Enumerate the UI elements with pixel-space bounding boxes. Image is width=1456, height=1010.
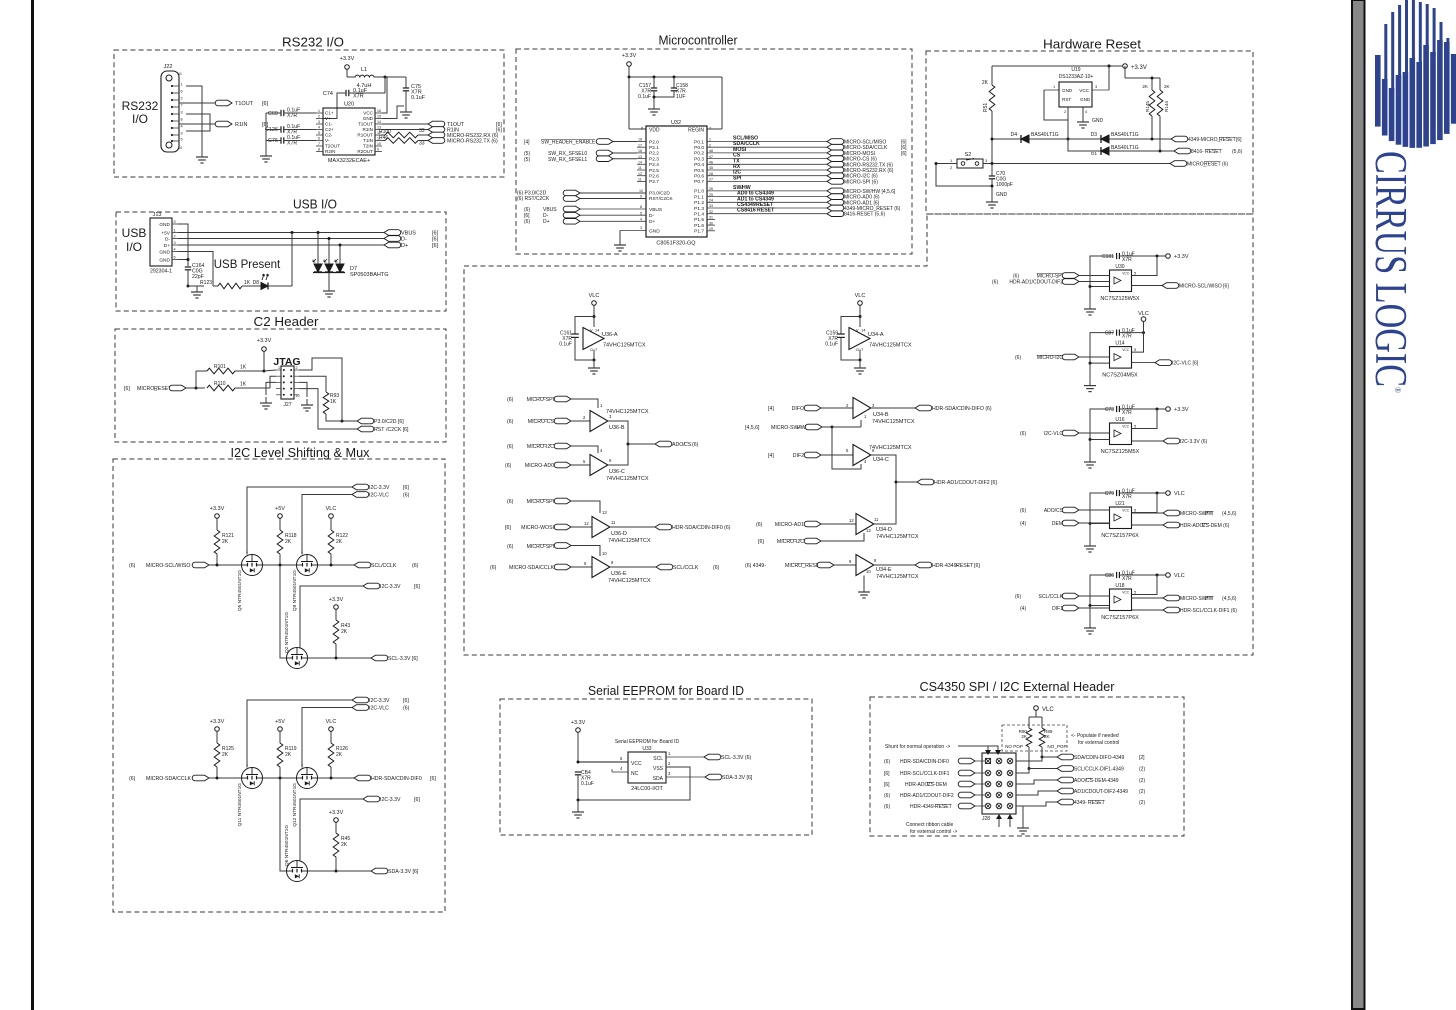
svg-text:C86: C86 bbox=[1105, 573, 1114, 579]
svg-text:P2.5: P2.5 bbox=[649, 168, 659, 174]
wire cap left rail U21 bbox=[1090, 493, 1114, 524]
tag I2C-3.3V top bbox=[352, 697, 369, 703]
svg-text:Hardware Reset: Hardware Reset bbox=[1043, 37, 1141, 52]
svg-text:GND: GND bbox=[159, 249, 170, 255]
svg-text:T1IN: T1IN bbox=[363, 138, 373, 143]
tag out I2C-VLC [6] bbox=[1132, 362, 1156, 364]
tag output HDR-SDA/CDIN-DIF0 bbox=[354, 775, 371, 781]
ground U30 bbox=[1089, 287, 1091, 304]
Cirrus Logic sphere logo bbox=[1375, 55, 1381, 127]
svg-text:1K: 1K bbox=[330, 399, 337, 405]
wire U36-D out bbox=[610, 526, 655, 528]
svg-text:1: 1 bbox=[709, 138, 711, 142]
svg-text:[6]: [6] bbox=[432, 243, 439, 249]
VSS wire bbox=[578, 767, 690, 800]
svg-text:USB Present: USB Present bbox=[214, 259, 281, 271]
svg-text:C69: C69 bbox=[268, 111, 278, 117]
power +3.3V RS232 bbox=[345, 65, 350, 70]
svg-text:Serial EEPROM for Board ID: Serial EEPROM for Board ID bbox=[615, 739, 680, 745]
svg-text:Q5 NTR4501NT1G: Q5 NTR4501NT1G bbox=[237, 570, 243, 611]
svg-text:0.1uF: 0.1uF bbox=[581, 781, 594, 787]
svg-text:U20: U20 bbox=[344, 102, 354, 108]
wire I2C to U34-D enable bbox=[821, 533, 864, 541]
svg-text:ADO/CS: ADO/CS bbox=[1044, 508, 1064, 514]
svg-text:MICRO-I2C: MICRO-I2C bbox=[527, 444, 554, 450]
svg-text:+5V: +5V bbox=[275, 506, 285, 512]
tag T1OUT bbox=[215, 100, 232, 106]
header pin bbox=[1007, 770, 1013, 776]
U19 RST pin down bbox=[1067, 107, 1069, 139]
svg-text:C2-: C2- bbox=[325, 133, 333, 138]
svg-text:VDD: VDD bbox=[649, 128, 660, 134]
svg-text:25: 25 bbox=[709, 193, 713, 197]
svg-text:P0.7: P0.7 bbox=[694, 179, 704, 185]
svg-text:(6): (6) bbox=[713, 565, 720, 571]
svg-text:+3.3V: +3.3V bbox=[210, 719, 225, 725]
svg-text:HDR-SCL/CCLK-DIF1: HDR-SCL/CCLK-DIF1 bbox=[900, 771, 950, 777]
diode D1 bbox=[1068, 139, 1101, 151]
SCL wire bbox=[666, 756, 704, 758]
capacitor C161 bbox=[575, 317, 594, 335]
svg-text:I/O: I/O bbox=[126, 240, 142, 254]
svg-text:J28: J28 bbox=[982, 816, 990, 822]
svg-text:(6): (6) bbox=[507, 397, 514, 403]
svg-text:SDA/CDIN-DIFO-4349: SDA/CDIN-DIFO-4349 bbox=[1074, 755, 1125, 761]
svg-text:P2.2: P2.2 bbox=[649, 151, 659, 157]
svg-text:P1.2: P1.2 bbox=[694, 200, 704, 206]
ground decoupling caps bbox=[265, 113, 267, 150]
ground eeprom bbox=[577, 800, 579, 806]
svg-text:[6]: [6] bbox=[403, 698, 409, 704]
NC pin bbox=[612, 771, 628, 773]
wire fet3 out bbox=[308, 870, 372, 872]
tag R1IN bbox=[215, 121, 232, 127]
svg-text:I2C-3.3V: I2C-3.3V bbox=[380, 797, 401, 803]
transistor Q11 bbox=[242, 768, 263, 789]
ground TVS bbox=[328, 285, 330, 291]
section box USB I/O bbox=[116, 212, 446, 311]
wire SPI to U36-B enable bbox=[571, 399, 598, 408]
svg-text:[6]: [6] bbox=[414, 584, 420, 590]
svg-text:33: 33 bbox=[419, 128, 425, 134]
buffer U36-A bbox=[583, 328, 604, 350]
svg-text:+5V: +5V bbox=[275, 719, 285, 725]
svg-text:MICRO-SW/: MICRO-SW/ bbox=[771, 425, 800, 431]
svg-text:24: 24 bbox=[709, 199, 713, 203]
svg-text:J27: J27 bbox=[283, 402, 291, 408]
header pin bbox=[996, 770, 1002, 776]
svg-text:7: 7 bbox=[181, 104, 183, 108]
svg-text:SW_READER_ENABLE: SW_READER_ENABLE bbox=[541, 140, 596, 146]
wire J22 pin8 to R1IN tag bbox=[179, 123, 218, 125]
resistor R90 bbox=[1026, 728, 1032, 747]
capacitor C76 bbox=[280, 137, 282, 143]
power +3.3V U30 bbox=[1119, 255, 1165, 257]
svg-text:SCL-3.3V [6]: SCL-3.3V [6] bbox=[388, 656, 418, 662]
svg-text:74VHC125MTCX: 74VHC125MTCX bbox=[869, 343, 912, 349]
buffer U34-B bbox=[853, 398, 871, 419]
svg-text:D+: D+ bbox=[649, 219, 655, 225]
svg-text:C2+: C2+ bbox=[325, 127, 334, 132]
resistor R144 bbox=[1159, 78, 1161, 90]
svg-text:I2C Level Shifting & Mux: I2C Level Shifting & Mux bbox=[231, 445, 370, 460]
svg-text:[6]: [6] bbox=[884, 771, 890, 777]
svg-text:NO_POP: NO_POP bbox=[1047, 744, 1066, 749]
tag out y bbox=[1132, 524, 1164, 526]
svg-text:47: 47 bbox=[709, 155, 713, 159]
svg-text:P2.7: P2.7 bbox=[649, 179, 659, 185]
svg-text:11: 11 bbox=[874, 517, 879, 522]
svg-text:MICRO-SPI: MICRO-SPI bbox=[527, 544, 554, 550]
capacitor C87 bbox=[1116, 330, 1118, 336]
buffer U36-B bbox=[590, 411, 608, 432]
svg-text:8416-: 8416- bbox=[1191, 149, 1204, 155]
svg-text:74VHC125MTCX: 74VHC125MTCX bbox=[876, 574, 919, 580]
svg-text:[6]: [6] bbox=[414, 797, 420, 803]
svg-text:NC: NC bbox=[631, 771, 639, 777]
svg-text:15: 15 bbox=[377, 115, 381, 119]
header pin bbox=[1007, 758, 1013, 764]
svg-text:[6]: [6] bbox=[262, 101, 269, 107]
resistor R45 bbox=[333, 833, 339, 857]
svg-text:9: 9 bbox=[640, 194, 642, 198]
wire hdr right AD1/CDOUT-DIF2-4349 bbox=[1016, 791, 1057, 795]
buffer U36-E bbox=[592, 557, 610, 578]
svg-text:10: 10 bbox=[296, 394, 300, 398]
svg-text:I2C-3.3V: I2C-3.3V bbox=[380, 584, 401, 590]
wire channel line bbox=[209, 564, 354, 566]
buffer U34-D bbox=[856, 514, 874, 535]
wire hdr left bbox=[975, 760, 985, 762]
svg-text:2K: 2K bbox=[341, 842, 348, 848]
svg-text:19: 19 bbox=[709, 227, 713, 231]
power VLC U34 bbox=[858, 301, 863, 306]
resistor R43 bbox=[333, 620, 339, 644]
wire D+ line bbox=[178, 244, 384, 246]
svg-text:12: 12 bbox=[638, 172, 642, 176]
svg-text:3: 3 bbox=[181, 111, 183, 115]
svg-text:+3.3V: +3.3V bbox=[257, 338, 272, 344]
svg-text:D8: D8 bbox=[253, 280, 260, 286]
svg-text:I2C-3.3V: I2C-3.3V bbox=[369, 698, 390, 704]
svg-text:VLC: VLC bbox=[1174, 491, 1185, 497]
tag HDR-AD1/CDOUT-DIF2 out bbox=[917, 479, 934, 485]
svg-text:27: 27 bbox=[709, 178, 713, 182]
svg-text:R51: R51 bbox=[983, 103, 989, 112]
svg-text:+3.3V: +3.3V bbox=[340, 56, 355, 62]
svg-text:1K: 1K bbox=[240, 365, 247, 371]
svg-text:(6): (6) bbox=[1020, 431, 1026, 437]
wire shunt arrows bbox=[958, 746, 988, 750]
svg-text:V: V bbox=[590, 328, 593, 333]
power +3.3V lower bbox=[334, 605, 339, 610]
tag R1IN out bbox=[428, 127, 445, 133]
svg-text:(4): (4) bbox=[1020, 521, 1026, 527]
svg-text:[6]: [6] bbox=[758, 539, 764, 545]
svg-text:SCL/CCLK: SCL/CCLK bbox=[673, 565, 699, 571]
svg-text:HDR-AD1/CDOUT-DIF2: HDR-AD1/CDOUT-DIF2 bbox=[1009, 280, 1063, 286]
svg-text:10: 10 bbox=[377, 142, 381, 146]
svg-text:D3: D3 bbox=[1091, 132, 1098, 138]
capacitor C126 bbox=[280, 126, 282, 132]
resistor R119 bbox=[277, 743, 283, 767]
svg-text:HDR-SDA/CDIN-DIFO (6): HDR-SDA/CDIN-DIFO (6) bbox=[932, 406, 992, 412]
svg-text:RESET: RESET bbox=[1204, 162, 1221, 168]
svg-text:1: 1 bbox=[174, 229, 176, 233]
svg-text:U34-D: U34-D bbox=[876, 527, 892, 533]
ground header bbox=[1022, 806, 1024, 822]
tag I2C-3.3V top bbox=[352, 484, 369, 490]
svg-text:11: 11 bbox=[178, 72, 182, 76]
wire hdr left bbox=[975, 783, 985, 785]
tag D- bbox=[384, 236, 401, 242]
svg-text:10: 10 bbox=[639, 189, 643, 193]
bracket wires J22 bbox=[186, 86, 202, 145]
svg-text:+3.3V: +3.3V bbox=[1131, 65, 1147, 71]
svg-text:7: 7 bbox=[318, 142, 320, 146]
svg-text:VCC: VCC bbox=[1122, 509, 1129, 513]
svg-text:NO POP: NO POP bbox=[1005, 744, 1023, 749]
svg-text:VCC: VCC bbox=[631, 761, 642, 767]
svg-text:P2.0: P2.0 bbox=[649, 139, 659, 145]
svg-text:6: 6 bbox=[174, 256, 176, 260]
wire VCC to node bbox=[382, 77, 387, 113]
svg-text:P0.0: P0.0 bbox=[694, 145, 704, 151]
svg-text:MICRO-AD0: MICRO-AD0 bbox=[525, 463, 554, 469]
svg-text:(6): (6) bbox=[507, 444, 514, 450]
svg-text:[6]: [6] bbox=[974, 563, 980, 569]
power +3.3V eeprom bbox=[576, 728, 581, 733]
svg-text:8: 8 bbox=[318, 148, 320, 152]
SDA wire bbox=[666, 776, 705, 778]
svg-text:U34-E: U34-E bbox=[876, 567, 892, 573]
power +3.3V lower bbox=[334, 818, 339, 823]
svg-text:I2C-VLC: I2C-VLC bbox=[369, 493, 389, 499]
wire SPI to U36-E enable bbox=[571, 546, 600, 557]
svg-text:MICRO-SPI: MICRO-SPI bbox=[527, 499, 554, 505]
resistor R51 bbox=[989, 85, 995, 111]
svg-text:C87: C87 bbox=[1105, 331, 1114, 337]
wire U34-E out bbox=[874, 564, 915, 566]
svg-text:U36-A: U36-A bbox=[602, 332, 618, 338]
svg-text:R1IN: R1IN bbox=[235, 122, 248, 128]
svg-text:24LC00-I/OT: 24LC00-I/OT bbox=[631, 786, 663, 792]
svg-text:(6): (6) bbox=[507, 419, 514, 425]
tag MICRO_RESET out bbox=[1170, 161, 1187, 167]
ground U34-E bbox=[863, 576, 865, 587]
svg-text:C2 Header: C2 Header bbox=[254, 314, 320, 329]
svg-text:(5): (5) bbox=[524, 157, 530, 163]
svg-text:MICRO-SCL/WISO [6]: MICRO-SCL/WISO [6] bbox=[1179, 284, 1229, 290]
svg-text:P1.1: P1.1 bbox=[694, 194, 704, 200]
TVS diode array D7 bbox=[314, 264, 322, 272]
wires J27 right side bbox=[299, 358, 342, 370]
wire hdr left bbox=[975, 772, 985, 774]
svg-text:I/O: I/O bbox=[132, 112, 148, 126]
svg-text:MICRO-RS232.TX (6): MICRO-RS232.TX (6) bbox=[447, 139, 498, 145]
svg-text:30: 30 bbox=[709, 221, 713, 225]
svg-text:R110: R110 bbox=[214, 381, 226, 387]
header pin bbox=[985, 770, 991, 776]
svg-text:2: 2 bbox=[181, 97, 183, 101]
svg-text:[6]: [6] bbox=[403, 485, 409, 491]
tag 4349-RESET bbox=[1057, 799, 1074, 805]
svg-text:G: G bbox=[856, 347, 859, 352]
tag output low SCL-3.3V [6] bbox=[371, 655, 388, 661]
svg-text:V: V bbox=[856, 328, 859, 333]
svg-text:(2): (2) bbox=[1139, 767, 1145, 773]
svg-text:GND: GND bbox=[159, 222, 170, 228]
svg-text:(5,6): (5,6) bbox=[1232, 149, 1243, 155]
svg-text:[4]: [4] bbox=[524, 140, 530, 146]
svg-text:Q6 NTR4501NT1G: Q6 NTR4501NT1G bbox=[284, 825, 290, 866]
svg-text:4: 4 bbox=[318, 126, 320, 130]
svg-text:D+: D+ bbox=[401, 243, 408, 249]
svg-text:for external control: for external control bbox=[1078, 740, 1119, 746]
transistor Q2 bbox=[287, 648, 308, 669]
svg-text:RST: RST bbox=[374, 427, 385, 433]
svg-text:10: 10 bbox=[602, 551, 607, 556]
svg-text:DEM: DEM bbox=[1052, 521, 1063, 527]
svg-text:NC7SZ125W5X: NC7SZ125W5X bbox=[1100, 296, 1139, 302]
wire hdr left bbox=[975, 794, 985, 796]
svg-text:R1OUT: R1OUT bbox=[357, 133, 373, 138]
svg-text:+3.3V: +3.3V bbox=[622, 53, 637, 59]
svg-text:Q2 NTR4501NT1G: Q2 NTR4501NT1G bbox=[284, 612, 290, 653]
svg-text:VSS: VSS bbox=[653, 766, 664, 772]
wire hdr left bbox=[975, 805, 985, 807]
svg-text:MICRO-SPI: MICRO-SPI bbox=[527, 397, 554, 403]
svg-text:U18: U18 bbox=[1115, 583, 1124, 589]
svg-text:2K: 2K bbox=[1044, 734, 1051, 739]
svg-text:+3.3V: +3.3V bbox=[329, 810, 344, 816]
svg-text:RESET: RESET bbox=[956, 563, 974, 569]
svg-text:(6): (6) bbox=[524, 219, 530, 225]
resistor R93 bbox=[323, 392, 329, 414]
svg-text:®: ® bbox=[1393, 387, 1402, 393]
svg-text:0.1uF: 0.1uF bbox=[825, 342, 838, 348]
wire LED to VBUS bbox=[291, 233, 293, 287]
svg-text:SDA-3.3V [6]: SDA-3.3V [6] bbox=[388, 869, 419, 875]
svg-text:8: 8 bbox=[181, 118, 183, 122]
svg-text:U21: U21 bbox=[1115, 501, 1124, 507]
capacitor C86 bbox=[1116, 572, 1118, 578]
svg-text:HW: HW bbox=[1205, 596, 1214, 602]
svg-text:[6]: [6] bbox=[1236, 137, 1242, 143]
svg-text:P0.3: P0.3 bbox=[694, 156, 704, 162]
section box Microcontroller bbox=[516, 49, 912, 254]
svg-text:U33: U33 bbox=[642, 746, 651, 752]
svg-text:(4,5,6): (4,5,6) bbox=[1222, 596, 1237, 602]
svg-text:0.1uF: 0.1uF bbox=[638, 94, 651, 100]
capacitor C70 bbox=[991, 164, 993, 177]
tag I2C-3.3V mid bbox=[363, 796, 380, 802]
wire SPI to U36-D enable bbox=[571, 501, 600, 513]
wire I2C to U36-C enable bbox=[571, 446, 598, 453]
svg-text:P1.7: P1.7 bbox=[694, 229, 704, 235]
wire U19 pin1 loop bbox=[1044, 90, 1068, 120]
svg-text:[6]: [6] bbox=[901, 151, 907, 157]
svg-text:4: 4 bbox=[181, 125, 183, 129]
tag HDR-SDA/CDIN-DIF0 right bbox=[915, 405, 932, 411]
resistor R100 bbox=[382, 134, 385, 136]
resistor R145 bbox=[1151, 78, 1153, 90]
svg-text:2K: 2K bbox=[222, 539, 229, 545]
wire hdr right ADO/CS-DEM-4349 bbox=[1016, 780, 1057, 784]
svg-text:R101: R101 bbox=[214, 364, 226, 370]
transistor Q5 bbox=[242, 555, 263, 576]
svg-text:CS4350 SPI / I2C External Head: CS4350 SPI / I2C External Header bbox=[920, 679, 1116, 694]
capacitor C74 bbox=[345, 90, 347, 96]
svg-text:C79: C79 bbox=[1105, 491, 1114, 497]
svg-text:NC7SZ125M5X: NC7SZ125M5X bbox=[1101, 449, 1140, 455]
svg-text:GND: GND bbox=[649, 229, 660, 235]
tag out x bbox=[1132, 597, 1164, 599]
svg-text:VLC: VLC bbox=[1042, 707, 1054, 713]
svg-text:74VHC125MTCX: 74VHC125MTCX bbox=[606, 476, 649, 482]
svg-text:33: 33 bbox=[419, 141, 425, 147]
svg-text:MICRO-WOSI: MICRO-WOSI bbox=[521, 525, 554, 531]
svg-text:2K: 2K bbox=[222, 752, 229, 758]
svg-text:SCL/CCLK: SCL/CCLK bbox=[1039, 594, 1064, 600]
svg-text:C1-: C1- bbox=[325, 122, 333, 127]
svg-text:R145: R145 bbox=[1145, 101, 1150, 112]
svg-text:P2.6: P2.6 bbox=[649, 174, 659, 180]
svg-text:CS8416: CS8416 bbox=[737, 208, 756, 214]
svg-text:L1: L1 bbox=[361, 67, 367, 73]
ground U18 bbox=[1089, 606, 1091, 623]
svg-text:MICRO-I2C: MICRO-I2C bbox=[777, 539, 804, 545]
ground U21 bbox=[1089, 524, 1091, 541]
resistor R89 bbox=[1039, 728, 1045, 747]
power VLC header bbox=[1034, 706, 1039, 711]
wire U36-E out bbox=[610, 566, 656, 568]
svg-text:P1.0: P1.0 bbox=[694, 189, 704, 195]
svg-text:5: 5 bbox=[174, 220, 176, 224]
ground U36-A bbox=[593, 362, 595, 368]
wire drain to lower fet bbox=[280, 778, 287, 871]
section box C2 Header bbox=[115, 329, 446, 442]
svg-text:(2): (2) bbox=[1139, 789, 1145, 795]
gray sidebar bar bbox=[1352, 0, 1365, 1009]
ground U34-A bbox=[859, 362, 861, 368]
svg-text:74VHC125MTCX: 74VHC125MTCX bbox=[603, 343, 646, 349]
svg-text:SDA-3.3V [6]: SDA-3.3V [6] bbox=[722, 775, 753, 781]
svg-text:C74: C74 bbox=[323, 91, 333, 97]
svg-text:4: 4 bbox=[174, 248, 176, 252]
ground J22 bbox=[201, 145, 203, 151]
svg-text:(6): (6) bbox=[1020, 508, 1026, 514]
svg-text:4349-: 4349- bbox=[1074, 800, 1087, 806]
capacitor C79 bbox=[1116, 490, 1118, 496]
svg-text:33: 33 bbox=[709, 204, 713, 208]
wire T1OUT to tag bbox=[382, 123, 428, 125]
svg-text:VLC: VLC bbox=[1174, 573, 1185, 579]
svg-text:1UF: 1UF bbox=[676, 94, 685, 100]
svg-text:G: G bbox=[590, 347, 593, 352]
svg-text:GND: GND bbox=[1062, 88, 1073, 93]
svg-text:RS232 I/O: RS232 I/O bbox=[282, 35, 344, 50]
wire cap left rail U18 bbox=[1090, 575, 1114, 606]
tag HDR-4349-RESET out bbox=[915, 562, 932, 568]
svg-text:BAS40LT1G: BAS40LT1G bbox=[1111, 132, 1139, 138]
svg-text:11: 11 bbox=[638, 178, 642, 182]
svg-text:(6): (6) bbox=[412, 563, 419, 569]
svg-text:0.1uF: 0.1uF bbox=[559, 342, 572, 348]
header pin bbox=[1007, 792, 1013, 798]
svg-text:(6): (6) bbox=[884, 759, 890, 765]
tag MICRO-RS232.RX bbox=[428, 132, 445, 138]
